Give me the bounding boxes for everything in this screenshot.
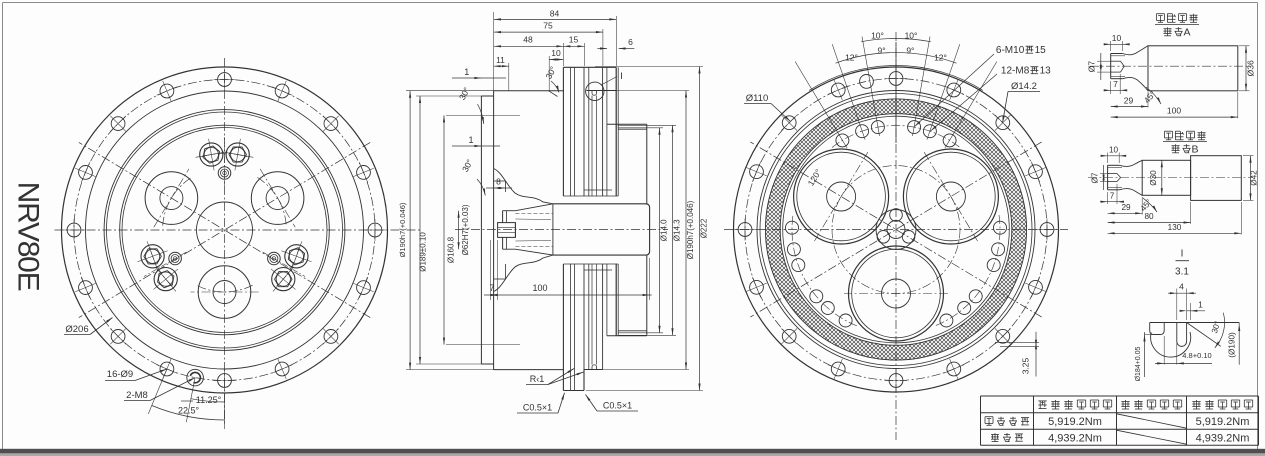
svg-text:75: 75 [543,21,553,31]
svg-text:10°: 10° [905,31,918,41]
svg-text:13: 13 [1040,66,1052,77]
svg-text:Ø14.3: Ø14.3 [673,219,682,241]
svg-text:3.1: 3.1 [1175,267,1189,278]
svg-text:8: 8 [496,177,501,187]
svg-text:Ø36: Ø36 [1246,60,1256,76]
svg-text:C0.5×1: C0.5×1 [523,403,552,413]
svg-text:6-M10: 6-M10 [996,45,1025,56]
svg-text:29: 29 [1121,203,1131,212]
svg-text:(Ø190): (Ø190) [1228,332,1237,358]
svg-text:100: 100 [532,283,547,293]
svg-text:7: 7 [1110,191,1115,200]
svg-text:Ø184+0.05: Ø184+0.05 [1135,346,1142,381]
svg-text:Ø222: Ø222 [700,218,709,238]
svg-text:12-M8: 12-M8 [1001,66,1030,77]
svg-text:R‹1: R‹1 [530,374,545,384]
svg-text:Ø7: Ø7 [1090,172,1099,183]
svg-text:Ø7: Ø7 [1087,61,1097,73]
svg-text:4.8+0.10: 4.8+0.10 [1182,351,1211,360]
svg-text:15: 15 [1035,45,1047,56]
svg-text:Ø14.0: Ø14.0 [660,219,669,241]
svg-text:11: 11 [496,55,505,65]
svg-text:7: 7 [489,283,494,293]
svg-text:Ø190h7(+0.046): Ø190h7(+0.046) [686,200,695,259]
svg-text:Ø30: Ø30 [1149,170,1158,186]
svg-text:15: 15 [569,35,579,45]
svg-text:5,919.2Nm: 5,919.2Nm [1048,416,1102,428]
svg-text:B: B [1191,143,1198,155]
svg-text:12°: 12° [845,53,858,63]
svg-text:4,939.2Nm: 4,939.2Nm [1048,432,1102,444]
svg-text:Ø206: Ø206 [65,324,88,335]
svg-text:29: 29 [1124,96,1134,106]
svg-text:10°: 10° [871,31,884,41]
svg-text:4,939.2Nm: 4,939.2Nm [1196,432,1250,444]
svg-text:22.5°: 22.5° [178,406,200,416]
svg-text:1: 1 [1198,300,1203,310]
svg-text:16-Ø9: 16-Ø9 [107,369,133,380]
svg-text:10: 10 [1109,146,1119,155]
svg-text:12°: 12° [934,53,947,63]
svg-text:1: 1 [464,67,469,77]
svg-text:1: 1 [468,135,473,145]
svg-text:2-M8: 2-M8 [126,390,148,401]
svg-text:10: 10 [551,48,561,58]
svg-text:Ø110: Ø110 [746,93,769,104]
svg-text:130: 130 [1168,223,1182,232]
svg-text:7: 7 [1113,79,1118,89]
svg-text:Ø14.2: Ø14.2 [1011,81,1037,92]
svg-text:4: 4 [1179,282,1184,292]
svg-text:3.25: 3.25 [1021,357,1031,374]
svg-text:84: 84 [550,9,560,19]
svg-text:I: I [1181,249,1184,260]
svg-text:Ø190h7(+0.046): Ø190h7(+0.046) [398,202,407,257]
svg-text:5,919.2Nm: 5,919.2Nm [1196,416,1250,428]
svg-text:Ø189±0.10: Ø189±0.10 [419,232,428,272]
svg-text:Ø160.8: Ø160.8 [447,236,456,263]
svg-text:NRV80E: NRV80E [12,182,45,291]
svg-text:Ø42: Ø42 [1250,170,1259,186]
svg-text:9°: 9° [878,46,886,56]
svg-text:11.25°: 11.25° [196,395,222,405]
svg-text:C0.5×1: C0.5×1 [603,401,632,411]
svg-text:80: 80 [1144,212,1154,221]
svg-text:A: A [1183,26,1190,38]
svg-text:Ø62H7(+0.03): Ø62H7(+0.03) [461,204,470,255]
svg-text:6: 6 [628,37,633,47]
svg-text:48: 48 [523,35,533,45]
svg-text:100: 100 [1167,106,1181,116]
svg-text:10: 10 [1112,33,1122,43]
svg-text:9°: 9° [906,46,914,56]
svg-text:I: I [620,71,623,82]
